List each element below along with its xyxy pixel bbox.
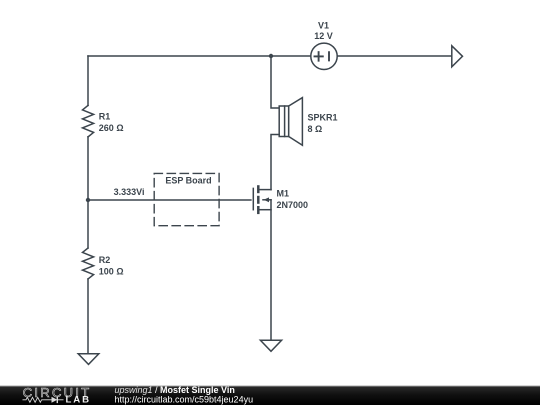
svg-text:2N7000: 2N7000	[277, 200, 309, 210]
svg-text:SPKR1: SPKR1	[308, 113, 338, 123]
svg-text:http://circuitlab.com/c59bt4je: http://circuitlab.com/c59bt4jeu24yu	[115, 395, 254, 405]
wire speaker bottom to drain	[271, 135, 279, 190]
ground symbol left	[78, 354, 99, 365]
svg-text:R1: R1	[99, 111, 111, 121]
wire left rail lower	[87, 279, 89, 354]
svg-text:M1: M1	[277, 189, 290, 199]
output pointer (open arrow)	[452, 46, 463, 67]
svg-text:upswing1 / Mosfet Single Vin: upswing1 / Mosfet Single Vin	[115, 385, 235, 395]
speaker SPKR1 body	[279, 98, 302, 146]
svg-text:100 Ω: 100 Ω	[99, 266, 124, 276]
V1 plus sign	[315, 52, 323, 61]
svg-text:8 Ω: 8 Ω	[308, 124, 323, 134]
wire source down	[270, 200, 272, 340]
mosfet M1 2N7000	[253, 185, 271, 214]
M1 channel bars	[257, 185, 260, 214]
wire gate horizontal	[88, 199, 251, 201]
svg-text:LAB: LAB	[66, 395, 91, 405]
svg-text:260 Ω: 260 Ω	[99, 123, 124, 133]
svg-text:12 V: 12 V	[314, 31, 333, 41]
wire left rail middle	[87, 137, 89, 248]
M1 gate line	[252, 188, 254, 209]
wire speaker top drop	[271, 56, 279, 108]
ground symbol right	[260, 340, 281, 351]
svg-text:3.333Vi: 3.333Vi	[114, 187, 145, 197]
M1 body arrowhead	[264, 197, 269, 202]
voltage source V1 circle	[311, 43, 337, 69]
ESP Board dashed box	[154, 173, 219, 225]
M1 body arrow line	[263, 199, 271, 201]
junction dot top rail	[269, 54, 273, 58]
circuitlab logo resistor zigzag	[23, 397, 46, 402]
resistor R2 zigzag	[83, 248, 94, 279]
resistor R1 zigzag	[83, 105, 94, 136]
wire left rail upper	[87, 56, 89, 105]
svg-text:ESP Board: ESP Board	[165, 175, 211, 185]
svg-text:V1: V1	[318, 20, 329, 30]
footer bar	[0, 385, 540, 405]
M1 drain stub	[260, 189, 272, 191]
svg-text:R2: R2	[99, 255, 111, 265]
wire top rail left (node V+)	[88, 55, 311, 57]
circuitlab logo diode arrow	[46, 397, 64, 404]
junction dot gate node	[86, 198, 90, 202]
M1 source stub	[260, 209, 272, 211]
wire top rail right to output pointer	[337, 55, 452, 57]
V1 minus bar	[328, 52, 330, 60]
